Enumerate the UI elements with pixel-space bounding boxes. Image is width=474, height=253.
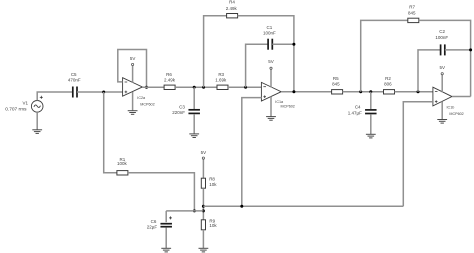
svg-text:C2: C2 (439, 29, 445, 34)
resistor R8 (201, 178, 205, 188)
value 845 R5 (332, 82, 340, 87)
C6 plus polarity mark (169, 216, 172, 219)
wire R5 to node B (343, 91, 384, 93)
svg-text:MCP602: MCP602 (449, 112, 463, 116)
resistor R7 (408, 18, 419, 22)
svg-text:22µF: 22µF (147, 225, 158, 230)
svg-text:845: 845 (332, 82, 340, 87)
wire bias rail (203, 205, 403, 207)
svg-text:1.47µF: 1.47µF (348, 111, 362, 116)
ground R9 (199, 248, 209, 252)
svg-text:C5: C5 (71, 72, 77, 77)
V1 plus polarity mark (40, 96, 43, 99)
op-amp IC1a (261, 82, 281, 101)
wire IC1a output (281, 91, 331, 93)
wire R6 to node A (175, 86, 217, 88)
resistor R6 (164, 85, 175, 89)
wire node B up to R7 (361, 20, 408, 91)
label IC2a (137, 96, 146, 100)
svg-text:IC1a: IC1a (275, 100, 284, 104)
wire C2 right lead (445, 49, 471, 51)
svg-text:100nF: 100nF (263, 31, 276, 36)
svg-text:V1: V1 (23, 101, 29, 106)
junction C1 output column (292, 43, 295, 46)
voltage source V1 (31, 101, 43, 113)
svg-text:2.49k: 2.49k (164, 77, 176, 82)
wire IC2a output to R6 (142, 86, 164, 88)
svg-text:0.707 rms: 0.707 rms (5, 107, 27, 113)
value 22uF (147, 225, 158, 230)
junction bias rail (202, 205, 205, 208)
svg-text:C1: C1 (267, 25, 273, 30)
svg-text:470nF: 470nF (68, 78, 81, 83)
junction IC1b inverting node (417, 90, 420, 93)
wire R8 to bias node (202, 188, 204, 220)
capacitor C4 (365, 110, 377, 114)
label C5 (71, 72, 77, 77)
ground C6 (161, 248, 171, 252)
svg-text:10k: 10k (209, 223, 217, 228)
wire R3 to IC1a inverting input (228, 86, 261, 88)
resistor R1 (117, 171, 128, 175)
5V supply bias (201, 150, 207, 178)
svg-text:R6: R6 (166, 72, 172, 77)
svg-text:2.49k: 2.49k (226, 6, 238, 11)
capacitor C3 (188, 110, 200, 114)
junction bias rail IC1a branch (240, 205, 243, 208)
value 2.49k (164, 77, 176, 82)
svg-text:R3: R3 (218, 72, 224, 77)
junction node B at C4 (369, 90, 372, 93)
label R9 (209, 218, 215, 223)
value 845 R7 (408, 11, 416, 16)
ground IC2a (128, 111, 138, 115)
junction node A at R4 branch (202, 86, 205, 89)
label R4 (229, 0, 235, 5)
wire IC1b ground pin (441, 101, 443, 119)
wire IC1a ground pin (270, 97, 272, 117)
wire node B to C4 (370, 92, 372, 109)
junction IC1a output column (292, 90, 295, 93)
svg-text:5V: 5V (439, 65, 445, 70)
svg-text:C6: C6 (151, 219, 157, 224)
svg-text:806: 806 (384, 82, 392, 87)
wire IC1b output (452, 96, 471, 98)
value 806 (384, 82, 392, 87)
wire C1 right lead (272, 43, 294, 45)
svg-text:R5: R5 (333, 76, 339, 81)
label R7 (409, 4, 415, 9)
wire C6 top lead (165, 211, 167, 222)
junction R1 at C6 row (193, 209, 196, 212)
value 220nF (172, 110, 185, 115)
wire R1 to bias node (128, 173, 194, 211)
value 10k R9 (209, 223, 217, 228)
op-amp IC2a (123, 78, 143, 97)
label MCP602 IC1a (281, 105, 295, 109)
value 470nF (68, 78, 81, 83)
svg-text:IC1b: IC1b (447, 106, 455, 110)
wire C6 row (166, 210, 203, 212)
resistor R2 (384, 90, 395, 94)
resistor R4 (227, 14, 238, 18)
label C1 (267, 25, 273, 30)
5V supply IC1b (439, 65, 445, 92)
value 100nF C2 (435, 35, 448, 40)
op-amp IC1b (433, 87, 452, 106)
wire C3 to ground (193, 114, 195, 134)
capacitor C2 (441, 44, 445, 55)
ground IC1a (266, 117, 276, 121)
wire C5 to IC2a noninverting input (77, 91, 123, 93)
svg-text:5V: 5V (201, 150, 207, 155)
value label 0.707 rms (5, 107, 27, 113)
junction input node (102, 91, 105, 94)
svg-text:100k: 100k (117, 161, 128, 166)
junction C2 output column (469, 48, 472, 51)
wire IC1a noninverting to bias rail (242, 98, 262, 207)
wire C4 to ground (370, 114, 372, 134)
5V supply IC1a (268, 59, 274, 87)
wire V1 to C5 (37, 92, 72, 101)
wire input node to R1 (104, 92, 117, 173)
svg-text:R8: R8 (209, 177, 215, 182)
svg-text:R7: R7 (409, 4, 415, 9)
wire R9 to ground (202, 230, 204, 249)
wire C2 left lead (418, 50, 441, 92)
label R5 (333, 76, 339, 81)
junction node B at R7 branch (359, 90, 362, 93)
svg-text:845: 845 (408, 11, 416, 16)
resistor R9 (201, 220, 205, 230)
label R3 (218, 72, 224, 77)
value 1.47uF (348, 111, 362, 116)
capacitor C6 (160, 224, 172, 227)
wire C1 left lead (246, 44, 269, 87)
capacitor C5 (73, 87, 77, 98)
junction IC2a output (145, 86, 148, 89)
svg-text:MCP602: MCP602 (281, 105, 295, 109)
wire node A to C3 (193, 87, 195, 109)
label C6 (151, 219, 157, 224)
wire IC1b noninverting to bias rail (403, 102, 433, 207)
junction bias C6 row (202, 209, 205, 212)
label R6 (166, 72, 172, 77)
label R2 (385, 76, 391, 81)
value 100k (117, 161, 128, 166)
label R1 (120, 157, 126, 162)
junction IC1a inverting node (244, 86, 247, 89)
resistor R3 (217, 85, 228, 89)
svg-text:MCP602: MCP602 (140, 102, 154, 106)
label V1 (23, 101, 29, 106)
svg-text:5V: 5V (130, 56, 136, 61)
svg-text:220nF: 220nF (172, 110, 185, 115)
wire R4 to output column (238, 16, 294, 92)
junction node A at C3 (193, 86, 196, 89)
svg-text:IC2a: IC2a (137, 96, 146, 100)
wire V1 to ground (36, 112, 38, 130)
value 100nF C1 (263, 31, 276, 36)
ground IC1b (437, 120, 447, 124)
wire R2 to IC1b inverting input (395, 91, 433, 93)
wire C6 to ground (165, 228, 167, 249)
5V supply IC2a (130, 56, 136, 83)
resistor R5 (332, 90, 343, 94)
ground V1 (32, 130, 42, 134)
value 2.49k R4 (226, 6, 238, 11)
ground C3 (189, 134, 199, 138)
svg-text:R4: R4 (229, 0, 235, 5)
label C2 (439, 29, 445, 34)
value 10k R8 (209, 182, 217, 187)
svg-text:C4: C4 (355, 105, 361, 110)
ground C4 (366, 134, 376, 138)
svg-text:5V: 5V (268, 59, 274, 64)
svg-text:R2: R2 (385, 76, 391, 81)
wire node A up to R4 (204, 16, 227, 88)
label C3 (179, 105, 185, 110)
wire IC2a feedback loop (118, 50, 147, 88)
value 1.69k (215, 77, 227, 82)
label IC1a (275, 100, 284, 104)
label IC1b (447, 106, 455, 110)
label MCP602 IC2a (140, 102, 154, 106)
svg-text:10k: 10k (209, 182, 217, 187)
svg-text:1.69k: 1.69k (215, 77, 227, 82)
svg-text:100nF: 100nF (435, 35, 448, 40)
label C4 (355, 105, 361, 110)
capacitor C1 (268, 39, 272, 50)
wire IC2a ground pin (132, 92, 134, 111)
label MCP602 IC1b (449, 112, 463, 116)
label R8 (209, 177, 215, 182)
wire R7 to output column (419, 20, 471, 96)
